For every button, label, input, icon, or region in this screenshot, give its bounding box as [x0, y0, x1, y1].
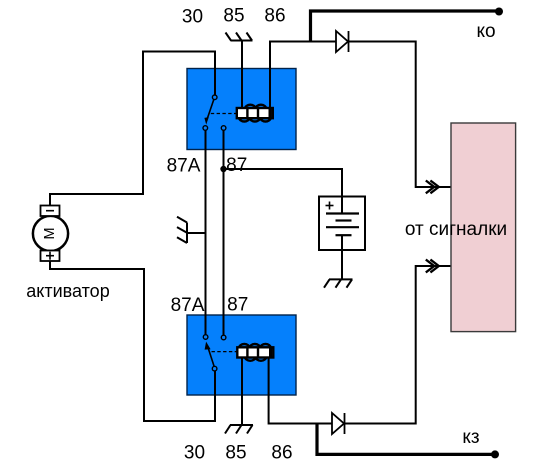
- wire motor plus to pin30 K2: [50, 261, 215, 421]
- svg-text:87: 87: [226, 155, 247, 176]
- diode D2: [332, 413, 345, 434]
- signal box: [451, 123, 516, 332]
- svg-text:M: M: [42, 227, 58, 239]
- ground bottom: [225, 425, 253, 434]
- svg-text:87A: 87A: [167, 156, 201, 177]
- ground mid: [177, 217, 187, 243]
- relay K1 switch: [203, 95, 237, 130]
- svg-text:86: 86: [271, 443, 292, 464]
- arrow into box top: [426, 181, 439, 194]
- wire ko bus: [311, 11, 500, 42]
- node kz terminal: [491, 450, 499, 458]
- relay K1 coil: [237, 105, 273, 122]
- wire ground stub mid: [187, 232, 206, 234]
- motor terminal plus: [41, 251, 60, 262]
- wire kz bus: [317, 424, 495, 455]
- relay K2 switch: [203, 335, 237, 371]
- wire pin30 K1 to motor minus: [50, 52, 215, 207]
- svg-text:85: 85: [223, 6, 244, 27]
- svg-text:87A: 87A: [171, 295, 205, 316]
- wire 87 to battery: [224, 169, 343, 197]
- node ko terminal: [495, 8, 503, 16]
- wire D1 to box: [349, 42, 452, 188]
- svg-text:30: 30: [182, 7, 203, 28]
- svg-text:86: 86: [264, 6, 285, 27]
- svg-text:85: 85: [225, 443, 246, 464]
- ground top: [226, 33, 253, 41]
- ground battery: [324, 279, 353, 287]
- wire pin86 K1 to diode: [270, 42, 336, 110]
- wire pin85 K2 down: [241, 357, 243, 425]
- relay K2 coil: [237, 344, 273, 361]
- node junction 87/battery: [220, 166, 226, 172]
- wire 87A rail: [205, 129, 207, 336]
- wire pin85 K1 up: [241, 41, 243, 110]
- svg-text:от сигналки: от сигналки: [405, 219, 507, 240]
- motor terminal minus: [41, 206, 60, 217]
- motor M1 actuator: [33, 216, 68, 251]
- svg-text:кз: кз: [462, 427, 479, 448]
- relay K1 body: [187, 69, 296, 150]
- svg-text:активатор: активатор: [26, 281, 109, 301]
- diode D1: [336, 31, 349, 52]
- relay K2 body: [187, 315, 296, 395]
- svg-text:87: 87: [227, 295, 248, 316]
- wire D2 to box: [345, 266, 452, 424]
- wire pin86 K2 to diode: [269, 357, 332, 424]
- battery G1: [319, 197, 365, 251]
- wire 87 rail: [223, 129, 225, 337]
- svg-text:30: 30: [184, 443, 205, 464]
- arrow into box bottom: [426, 260, 439, 273]
- svg-text:ко: ко: [476, 21, 495, 42]
- wire battery to ground: [341, 235, 343, 279]
